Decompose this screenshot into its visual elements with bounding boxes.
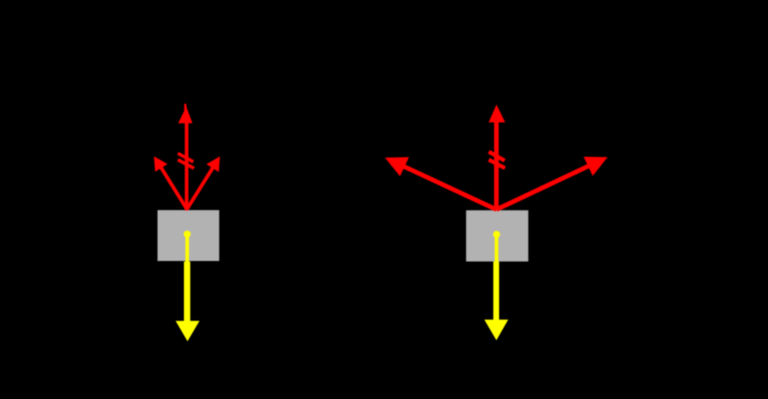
- left figure: main thrust arrow (vertical, with break marks): [178, 104, 192, 211]
- right figure: main thrust arrow (vertical, with break marks): [489, 105, 506, 211]
- left figure: explosion force arrow up-left: [154, 156, 187, 209]
- left figure: center-of-mass dot (yellow): [184, 231, 191, 238]
- right figure: break marks (double slash) on vertical arrow: [489, 152, 505, 168]
- right figure: weight arrow (yellow, downward): [484, 236, 508, 341]
- left figure: weight arrow (yellow, downward): [176, 235, 200, 341]
- left figure: break marks (double slash) on vertical arrow: [178, 153, 194, 168]
- right figure: explosion force arrow up-left (long): [385, 157, 496, 210]
- block B (right gray box): [466, 210, 528, 261]
- block A (left gray box): [158, 210, 220, 261]
- right figure: center-of-mass dot (yellow): [493, 231, 500, 238]
- left figure: explosion force arrow up-right: [187, 156, 220, 209]
- right figure: explosion force arrow up-right (long): [496, 157, 607, 210]
